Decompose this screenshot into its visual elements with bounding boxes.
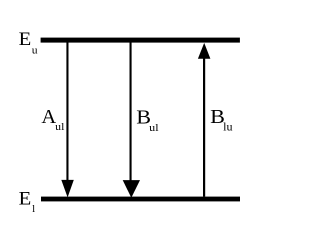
svg-text:E: E bbox=[19, 29, 32, 50]
svg-text:l: l bbox=[32, 203, 35, 215]
svg-text:u: u bbox=[32, 44, 38, 56]
arrowhead A_ul bbox=[61, 180, 74, 198]
label A_ul bbox=[41, 106, 64, 133]
label E_u bbox=[19, 29, 38, 56]
label B_lu bbox=[210, 106, 233, 133]
svg-text:ul: ul bbox=[149, 122, 158, 134]
upper energy level line E_u bbox=[41, 38, 240, 43]
label B_ul bbox=[136, 106, 158, 134]
label E_l bbox=[19, 189, 36, 216]
arrowhead B_lu bbox=[198, 43, 211, 59]
svg-text:ul: ul bbox=[55, 121, 64, 133]
wire B_lu arrow shaft bbox=[203, 55, 205, 197]
arrowhead B_ul bbox=[123, 180, 140, 198]
wire B_ul arrow shaft bbox=[130, 43, 132, 188]
svg-text:E: E bbox=[19, 189, 32, 210]
svg-text:A: A bbox=[41, 106, 56, 128]
wire A_ul arrow shaft bbox=[66, 43, 68, 188]
svg-text:lu: lu bbox=[223, 121, 233, 133]
lower energy level line E_l bbox=[41, 197, 240, 202]
